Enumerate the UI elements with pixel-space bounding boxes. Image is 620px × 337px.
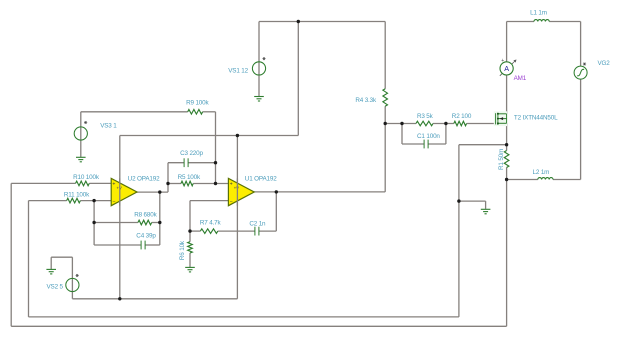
svg-text:L1 1m: L1 1m: [530, 9, 547, 16]
label C1 value: [417, 133, 440, 140]
wire R2 to T2 gate: [467, 123, 496, 125]
wire left vertical outer: [10, 183, 12, 326]
wire C3 left vertical: [167, 163, 169, 192]
label U1 name: [245, 176, 277, 183]
svg-text:A: A: [504, 64, 509, 73]
junction C3 right: [214, 161, 217, 164]
wire U2 supply rail: [119, 136, 121, 299]
label R2 value: [452, 113, 472, 120]
wire VS2 ground link: [51, 256, 72, 258]
wire U1 supply through triangle: [236, 178, 238, 205]
junction +12V rail: [297, 20, 300, 23]
wire VG2 vertical: [580, 22, 582, 180]
wire sense vertical x=459: [458, 145, 460, 317]
resistor R9: [188, 110, 203, 115]
resistor R1: [504, 151, 509, 168]
op-amp U2: [111, 178, 137, 205]
wire C1 left lead: [402, 143, 424, 145]
wire ground stub at VS2: [50, 257, 52, 269]
wire +12V branch down at x=298: [297, 22, 299, 136]
wire U1 supply rail: [236, 136, 238, 299]
wire VS1 branch vertical: [258, 22, 260, 97]
svg-text:AM1: AM1: [514, 75, 527, 82]
ground at R6: [185, 267, 195, 272]
wire ground stub vertical: [485, 201, 487, 209]
svg-text:R9 100k: R9 100k: [186, 99, 209, 106]
junction -V rail: [118, 297, 121, 300]
capacitor C1: [424, 140, 428, 149]
resistor R5: [181, 181, 193, 186]
junction sense ground: [457, 199, 460, 202]
wire bottom feedback outer: [11, 325, 506, 327]
junction C1 left: [400, 122, 403, 125]
wire U1 -in down to R7: [189, 201, 191, 232]
wire R6 bottom lead: [189, 253, 191, 267]
ground at source sense: [481, 209, 491, 214]
svg-text:R4 3.3k: R4 3.3k: [355, 97, 377, 104]
wire op-amp +V rail horizontal: [120, 135, 298, 137]
capacitor C4: [141, 241, 145, 250]
label C3 value: [180, 150, 203, 157]
wire R1 bottom down: [506, 180, 508, 327]
junction U2 output: [158, 190, 161, 193]
wire gate row R4 to R3: [385, 123, 416, 125]
wire U2 output: [137, 191, 168, 193]
svg-text:VG2: VG2: [598, 60, 611, 67]
svg-text:T2 IXTN44N50L: T2 IXTN44N50L: [514, 114, 558, 121]
svg-text:+: +: [112, 181, 115, 187]
junction U1 output: [275, 190, 278, 193]
svg-text:VS1 12: VS1 12: [228, 68, 248, 75]
svg-text:R5 100k: R5 100k: [178, 174, 201, 181]
label R1 value: [498, 149, 505, 170]
transistor T2: [494, 111, 507, 126]
svg-text:−: −: [112, 199, 115, 205]
capacitor C2: [255, 227, 259, 236]
label R6 value: [179, 240, 186, 260]
wire C4 left lead: [94, 244, 141, 246]
label R4 value: [355, 97, 377, 104]
resistor R6: [188, 242, 193, 253]
wire R3 to R2: [433, 123, 454, 125]
wire R10 to U2 +in: [89, 182, 111, 184]
wire R5 left lead: [168, 183, 181, 185]
label VG2 name: [598, 60, 611, 67]
label U2 name: [128, 176, 160, 183]
wire C1 right lead: [428, 143, 446, 145]
op-amp U1: [228, 178, 254, 205]
inductor L1: [534, 20, 549, 22]
resistor R8: [138, 220, 152, 225]
label L2 value: [533, 169, 550, 176]
resistor R3: [416, 121, 433, 126]
wire C1 right stub: [445, 124, 447, 145]
wire R4 node down to U1 output row: [384, 124, 386, 192]
wire R8 right lead: [152, 222, 160, 224]
wire T2 source to R1: [506, 123, 508, 150]
svg-text:R7 4.7k: R7 4.7k: [200, 220, 222, 227]
wire R11 row left: [29, 200, 67, 202]
wire L2 right lead: [553, 179, 581, 181]
svg-text:C4 39p: C4 39p: [136, 232, 156, 239]
wire U2 feedback right vertical: [159, 192, 161, 245]
label VS3 value: [100, 123, 117, 130]
label R7 value: [200, 220, 222, 227]
svg-text:VS3 1: VS3 1: [100, 123, 117, 130]
svg-text:C1 100n: C1 100n: [417, 133, 440, 140]
svg-text:R2 100: R2 100: [452, 113, 472, 120]
wire R1 bottom lead: [506, 168, 508, 180]
label R11 value: [64, 191, 90, 198]
label R9 value: [186, 99, 209, 106]
wire R7 left lead: [190, 230, 200, 232]
wire R11 to U2 -in: [80, 200, 111, 202]
wire R10 row left: [11, 182, 75, 184]
ammeter AM1: [500, 58, 517, 76]
wire R4 bottom lead: [384, 106, 386, 123]
label C2 value: [249, 220, 266, 227]
wire C3 left lead: [168, 162, 184, 164]
junction U1 +in: [214, 182, 217, 185]
svg-text:+: +: [230, 181, 233, 187]
junction R7 left: [188, 229, 191, 232]
resistor R11: [67, 198, 81, 203]
wire R5 to U1 +in: [193, 183, 228, 185]
wire U1 output row: [254, 191, 385, 193]
wire R8 left lead: [94, 222, 138, 224]
ground at VS2: [46, 269, 56, 274]
svg-text:R8 680k: R8 680k: [134, 212, 157, 219]
svg-text:VS2 5: VS2 5: [47, 284, 64, 291]
wire L1 left lead: [507, 21, 534, 23]
voltage source VS1: [252, 57, 265, 75]
junction R1 bottom: [505, 178, 508, 181]
wire ground stub horizontal: [459, 200, 486, 202]
wire C2 up to U1 output: [275, 192, 277, 231]
junction C1 right / R3-R2: [444, 122, 447, 125]
wire left vertical inner: [28, 201, 30, 317]
ground at VS1: [254, 97, 264, 102]
junction R4 bottom node: [384, 122, 387, 125]
wire U1 -in horizontal: [190, 200, 228, 202]
voltage generator VG2: [574, 63, 587, 79]
junction T2 source: [505, 143, 508, 146]
svg-text:R1 50m: R1 50m: [498, 149, 505, 170]
svg-text:L2 1m: L2 1m: [533, 169, 550, 176]
svg-text:C3 220p: C3 220p: [180, 150, 203, 157]
junction R8 right: [158, 221, 161, 224]
resistor R10: [76, 181, 90, 186]
wire -V rail horizontal: [72, 298, 237, 300]
label VS2 value: [47, 284, 64, 291]
label L1 value: [530, 9, 547, 16]
wire bottom feedback inner: [29, 316, 459, 318]
svg-text:R11 100k: R11 100k: [64, 191, 90, 198]
wire C3 right lead: [188, 162, 215, 164]
wire C4 right lead: [145, 244, 160, 246]
wire R6 top lead: [189, 231, 191, 242]
label R3 value: [417, 113, 434, 120]
wire source sense row: [459, 144, 507, 146]
svg-text:U2 OPA192: U2 OPA192: [128, 176, 160, 183]
wire R9 feedback vertical: [215, 112, 217, 184]
wire U2 feedback left vertical: [93, 201, 95, 245]
inductor L2: [538, 178, 553, 180]
wire VS3 vertical: [80, 112, 82, 157]
svg-text:U1 OPA192: U1 OPA192: [245, 176, 277, 183]
wire L2 left lead: [507, 179, 538, 181]
wire L1 right lead: [549, 21, 580, 23]
voltage source VS2: [66, 274, 79, 291]
svg-text:R6 10k: R6 10k: [179, 240, 186, 260]
junction R5 left: [166, 182, 169, 185]
wire +12V top rail: [259, 21, 385, 23]
svg-text:C2 1n: C2 1n: [249, 220, 266, 227]
junction R8 left: [92, 221, 95, 224]
wire U2 supply through triangle: [119, 178, 121, 205]
wire VS3 to R9: [81, 111, 188, 113]
ground at VS3: [76, 157, 86, 162]
label C4 value: [136, 232, 156, 239]
wire VS2 vertical: [71, 257, 73, 299]
svg-text:R10 100k: R10 100k: [73, 174, 100, 181]
wire R9 right lead: [203, 111, 216, 113]
label AM1 name: [514, 75, 527, 82]
label R8 value: [134, 212, 157, 219]
wire R7 to C2: [218, 230, 255, 232]
label VS1 value: [228, 68, 248, 75]
wire AM1/T2 drain vertical: [506, 22, 508, 114]
wire C2 right lead: [259, 230, 276, 232]
label R5 value: [178, 174, 201, 181]
label R10 value: [73, 174, 100, 181]
voltage source VS3: [74, 121, 87, 140]
label T2 value: [514, 114, 558, 121]
svg-text:+: +: [501, 58, 504, 64]
resistor R2: [454, 121, 467, 126]
junction U1 +V rail: [236, 134, 239, 137]
resistor R4: [383, 89, 388, 106]
svg-text:−: −: [230, 199, 233, 205]
capacitor C3: [184, 158, 188, 167]
junction U2 -in: [92, 199, 95, 202]
wire C1 left stub: [401, 124, 403, 145]
wire R4 top lead: [384, 22, 386, 89]
resistor R7: [200, 229, 217, 234]
svg-text:R3 5k: R3 5k: [417, 113, 434, 120]
svg-text:+V: +V: [234, 185, 239, 190]
